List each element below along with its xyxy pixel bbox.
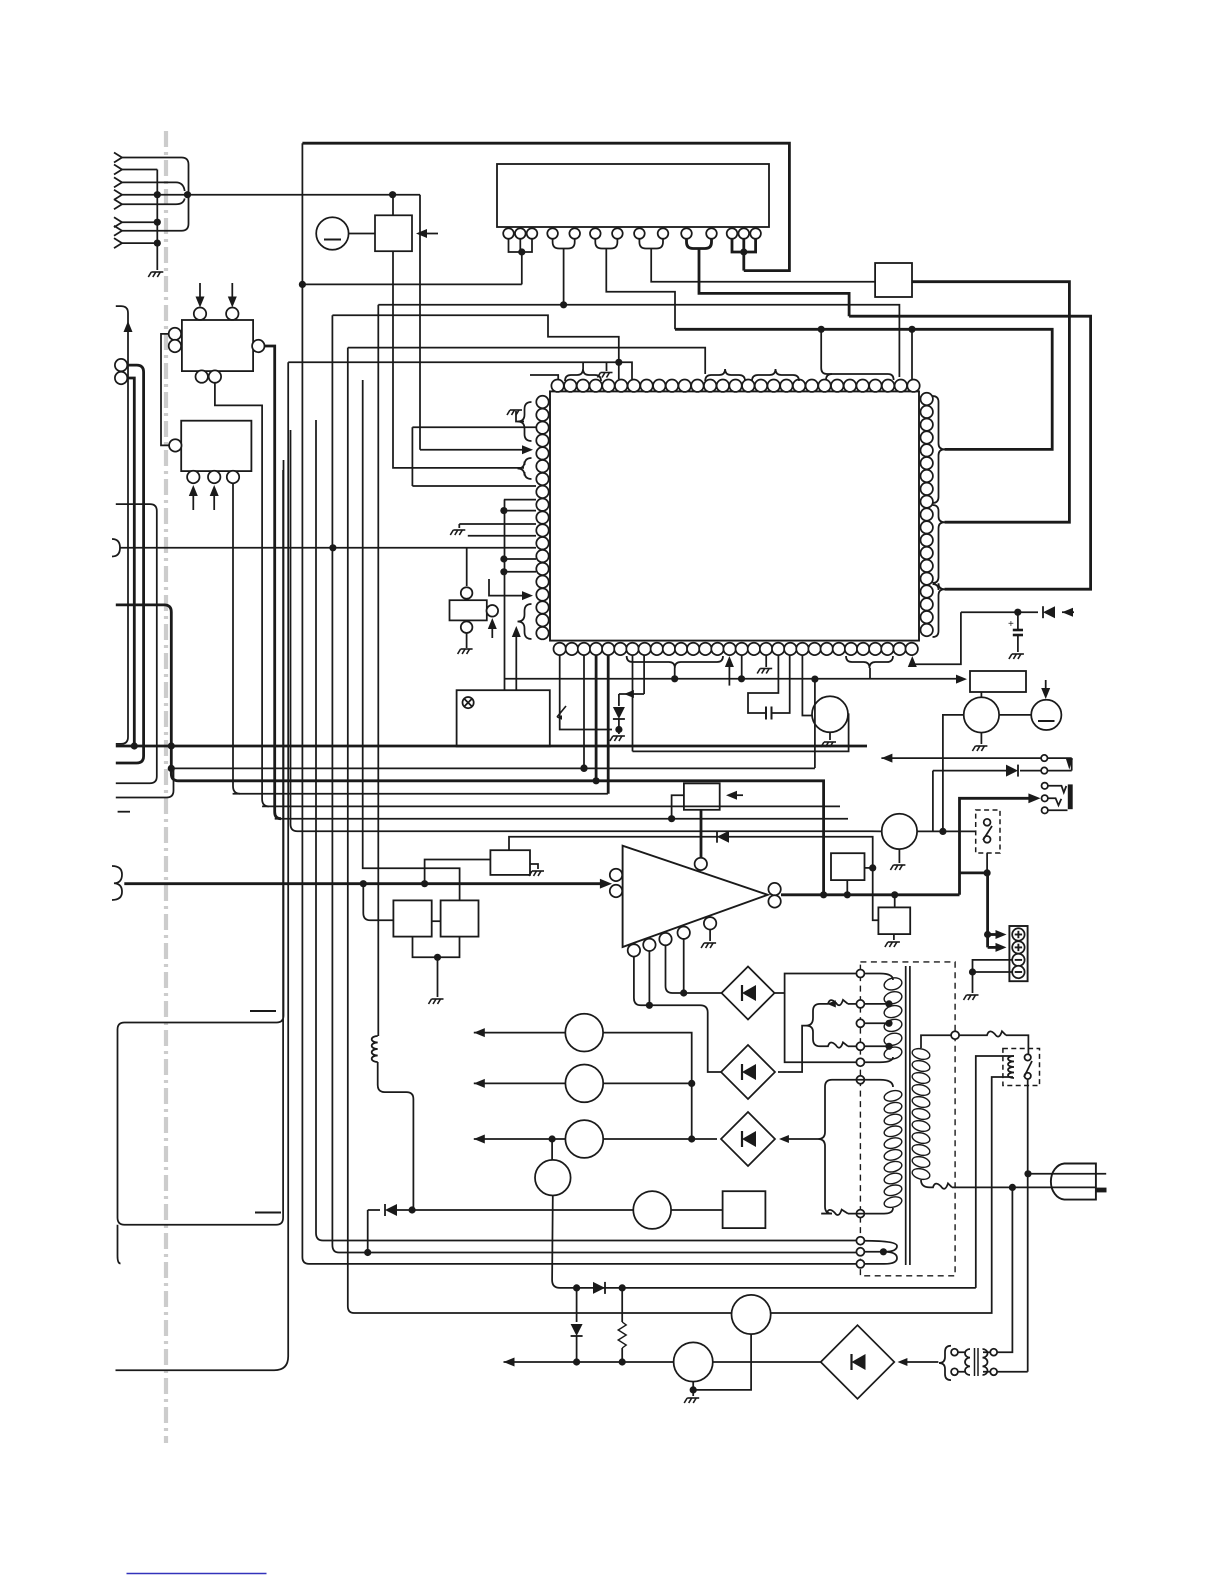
transistor Q9 — [535, 1160, 571, 1196]
wire relay feed fuse — [959, 1034, 984, 1036]
box VR1 — [375, 215, 412, 251]
diode D9 — [593, 1282, 605, 1294]
relay K1 — [1003, 1049, 1040, 1086]
resistor R1 — [621, 1288, 623, 1322]
wire power rail left — [302, 143, 860, 1264]
wire CN1 pin1-pin7 loop — [122, 158, 189, 231]
lamp box U4 — [457, 690, 550, 746]
wire diode D7 branch — [368, 1209, 380, 1211]
node CN1 junctions — [154, 191, 161, 198]
wire CN1 main feed — [188, 194, 421, 196]
connector CN3 — [112, 866, 122, 900]
diode D6 on L6 — [717, 831, 729, 843]
wire far-left feed 504 — [116, 504, 157, 783]
ground CN1 — [148, 272, 163, 277]
wire op-amp out thick — [781, 893, 960, 896]
wire rail C — [116, 362, 289, 1370]
wire Q11 Q10 grounds — [693, 1334, 751, 1390]
battery B1 — [316, 217, 348, 249]
wire U1b bottom arrows — [192, 492, 194, 510]
wire loop far-left 1 — [116, 306, 128, 744]
wire Q7 left arrow — [474, 1079, 485, 1088]
wire Rfb bottom stub — [846, 880, 848, 895]
IC U3 left pins — [536, 396, 548, 408]
wire far-left feed 605 thick — [116, 605, 824, 895]
transformer T1 primary winding W1 — [883, 976, 903, 992]
transistor Q4 — [633, 1191, 671, 1229]
bridge rectifier BD4 — [821, 1325, 895, 1399]
wire U2 pair1 — [553, 239, 575, 249]
wire CN1 ground spine — [156, 170, 158, 271]
wire hook stub — [118, 1225, 121, 1264]
wire X1 trim arrow — [491, 624, 493, 638]
wire far-left feed 797 — [116, 768, 174, 797]
wire jack thick — [960, 798, 1030, 895]
wire top pin feed B — [378, 305, 899, 377]
wire U2 pair3 — [639, 239, 663, 249]
wire input bus thick — [124, 882, 601, 885]
battery terminal block BT1 — [1009, 926, 1027, 981]
IC U2 pins — [503, 228, 514, 239]
diode D8 — [1006, 765, 1018, 777]
ground Q2 — [980, 733, 982, 744]
transistor Q11 — [732, 1295, 771, 1334]
wire bottom pin stub dot1 — [741, 655, 743, 679]
wire U3 left stub 524 with ground — [459, 523, 536, 525]
wire U3 top pins gnd group — [288, 362, 632, 379]
wire U3 right brace 1 — [933, 396, 945, 503]
wire U3 left stub 427 — [412, 426, 536, 428]
wire W2 brace to bridge3 — [818, 1080, 832, 1214]
wire Q4 line — [412, 1209, 633, 1211]
wire Q6 left arrow — [474, 1028, 485, 1037]
wire rail E — [332, 315, 860, 1252]
bridge rectifier BD2 — [721, 1045, 775, 1099]
wire outer loop — [302, 283, 521, 285]
wire opamp pins to BD1 — [634, 957, 722, 1072]
wire CN1 pin4 — [122, 194, 188, 196]
wire U1a top feeds — [199, 283, 201, 301]
transistor Q7 — [565, 1065, 603, 1103]
wire Q2 right to B3 — [999, 714, 1031, 716]
ground Rtop — [530, 864, 538, 869]
wire U8 left drop — [672, 795, 684, 819]
wire U2 right triple union — [732, 239, 756, 252]
wire loop far-left 3 — [127, 378, 134, 746]
wire D5 arrow — [1062, 608, 1073, 617]
IC U3 main — [550, 391, 919, 640]
wire Rg top stub — [894, 895, 896, 908]
wire Q5 right loop — [633, 714, 849, 751]
box U9 — [723, 1191, 766, 1228]
wire bus329 to IC right pins group1 — [675, 329, 1052, 449]
wire bottom pin stub 631 — [632, 655, 634, 751]
ground U3 left top — [507, 410, 522, 415]
wire bottom pin stub 607 thick — [607, 655, 610, 794]
wire lamp arrow into brace C — [515, 632, 517, 690]
wire SW1 to battery feed thick — [960, 873, 988, 948]
wire brace1 to bridge2 — [778, 1026, 806, 1072]
IC U1b — [181, 421, 251, 471]
wire SW1 bottom stub — [986, 853, 988, 873]
wire U3 top brace group3 — [752, 369, 799, 381]
ground Q5 — [829, 732, 831, 740]
transformer T1 winding W2 — [883, 1089, 903, 1103]
crystal X1 — [450, 600, 487, 620]
wire CN1 pin6 — [122, 221, 157, 223]
switch SW1 — [976, 810, 1000, 853]
wire cap-diode line — [961, 611, 1038, 613]
wire rail F — [348, 348, 1013, 1313]
IC U2 top connector block — [497, 164, 769, 227]
wire W1 taps brace + fuses — [824, 1000, 848, 1005]
transformer T1 winding W3 — [864, 1241, 897, 1264]
wire CN1 pin3 — [122, 182, 185, 191]
wire to bottom-right pin arrow — [912, 612, 961, 664]
wire relay contact down — [1027, 1079, 1029, 1372]
wire Rb merge + ground — [413, 937, 460, 958]
wire bottom pin stub 583 — [583, 655, 585, 768]
wire VR1 to IC pin brace — [393, 251, 524, 468]
wire pair4 loop to IC right pins group3 — [849, 316, 1091, 589]
ground U3 bottom pin — [765, 655, 767, 667]
wire zener feed arrow — [619, 693, 644, 695]
wire U3 left pin arrow1 — [420, 449, 522, 451]
wire BD3 arrow — [779, 1135, 789, 1143]
wire U2 pair2 — [595, 239, 617, 249]
wire U3 left brace A — [518, 402, 532, 441]
wire plug upper — [1028, 1173, 1106, 1175]
battery B3 — [1031, 700, 1061, 730]
AC plug P1 — [1051, 1164, 1096, 1200]
AC plug prong thick — [1096, 1188, 1107, 1193]
wire U3 left stub 486 — [412, 485, 536, 487]
wire U8 arrow — [731, 794, 743, 796]
transformer T1 secondary W4 — [911, 1047, 931, 1061]
wire Rfb right stub — [865, 867, 873, 869]
wire Q8 left arrow — [474, 1135, 485, 1144]
wire Q9 chain — [552, 1139, 976, 1288]
box Rfb — [831, 853, 865, 880]
wire diode line 770 — [932, 771, 934, 832]
box Rb1 — [393, 900, 431, 936]
wire Q2 left — [943, 715, 964, 832]
wire outer loop top — [302, 143, 789, 270]
wire rail B thick — [264, 346, 281, 819]
wire U3 pin1 stub — [530, 375, 558, 379]
transistor Q2 — [964, 697, 999, 732]
wire L1 bus — [171, 767, 815, 769]
wire L3 bus — [233, 793, 608, 795]
wire loop far-left 2 — [116, 365, 144, 763]
wire Q6 right — [603, 1033, 692, 1139]
wire U3 bottom brace group1 — [627, 656, 723, 668]
wire rail IC2pin3 — [233, 483, 240, 794]
capacitor C1 electrolytic — [1017, 612, 1019, 629]
ground Q3 — [898, 849, 900, 863]
transistor Q5 — [812, 696, 848, 732]
wire loop H1 — [118, 460, 284, 1225]
wire BT1 minus — [973, 960, 1013, 993]
transformer T1 core — [905, 966, 907, 1265]
label dash 1 — [250, 1010, 276, 1012]
wire U3 bottom brace group2 — [846, 656, 893, 668]
wire bus679 drop — [814, 679, 816, 768]
wire bottom pin arrow up — [728, 663, 730, 686]
wire Q8 right — [603, 1138, 717, 1140]
connector CN2 — [112, 539, 120, 557]
board boundary dash-dot line — [164, 131, 168, 1443]
wire Q3 right to switch — [917, 830, 976, 832]
wire rail D — [316, 420, 860, 1241]
box U6 — [970, 671, 1026, 692]
wire VR1 top feed — [392, 195, 394, 216]
wire L5 bus — [275, 818, 848, 820]
transistor Q3 — [882, 814, 917, 849]
wire L6 bus — [509, 837, 878, 921]
wire line arrow 758 — [881, 754, 892, 763]
connector CN1 pin arrows — [114, 153, 122, 163]
box U5 — [875, 263, 912, 297]
connector pins far-left — [115, 359, 127, 371]
wire U3 left arrow 595 — [489, 579, 522, 596]
isolation transformer T2 — [939, 1346, 951, 1380]
wire CN1 pin5 — [122, 198, 185, 204]
wire BD4 arrow — [898, 1358, 908, 1366]
diode D5 — [1043, 606, 1055, 618]
wire U5 right loop to IC right pins group2 — [912, 282, 1069, 523]
wire L4 bus — [262, 805, 840, 807]
wire Rb link — [432, 920, 441, 922]
wire rail H inductor — [377, 305, 379, 1036]
wire crystal feed — [466, 548, 468, 586]
wire thick mid bus — [116, 745, 867, 748]
wire lamp bus — [505, 678, 958, 680]
wire bottom pin stub 595 thick — [595, 655, 598, 781]
wire VR1 control arrow — [419, 233, 438, 235]
wire IC1-IC2 left link — [161, 334, 170, 446]
wire rail A — [215, 382, 269, 806]
transistor Q10 — [674, 1342, 713, 1381]
svg-text:+: + — [1008, 619, 1014, 630]
transistor Q8 — [565, 1120, 603, 1158]
IC U3 right pins — [921, 393, 933, 405]
wire U3 top brace group2 — [705, 369, 745, 381]
wire U3 left stub 535 — [468, 535, 536, 537]
IC U3 top pins — [551, 380, 563, 392]
box Rtop — [490, 850, 530, 875]
wire U3 right brace 3 — [933, 583, 945, 637]
wire U3 left stubs x503 — [504, 499, 536, 501]
wire bus left-connector — [120, 547, 536, 549]
wire B3 top arrow — [1045, 680, 1047, 692]
wire CN1 pin8 — [122, 242, 157, 244]
ground Rg — [893, 934, 895, 940]
ground X1 — [466, 633, 468, 648]
wire U2 pair4 — [687, 239, 712, 249]
wire top pin bracket wide — [820, 329, 822, 368]
ground op-amp pin — [709, 930, 711, 942]
wire rail G — [363, 380, 460, 900]
wire top pin feed A — [911, 329, 913, 380]
IC U3 bottom pins — [554, 643, 566, 655]
wire U3 left brace B — [518, 458, 532, 479]
tick mark bottom far-left — [118, 811, 130, 813]
bridge rectifier BD3 — [721, 1112, 775, 1166]
wire U3 right brace 2 — [933, 505, 945, 583]
wire U8 to op-amp pin thick — [700, 810, 703, 858]
wire BT1 plus arrows thick — [988, 933, 997, 936]
wire Rtop feed — [425, 860, 491, 884]
inductor L1 — [372, 1036, 378, 1062]
wire B1 to VR1 — [349, 233, 375, 235]
capacitor C2 between pins — [748, 655, 778, 713]
transformer T1 terminals — [856, 970, 864, 978]
wire relay coil left wires — [976, 1056, 1014, 1288]
wire U3 left brace C — [518, 604, 532, 639]
wire to box B_b — [363, 884, 393, 921]
box U8 over op-amp — [684, 783, 720, 809]
transistor Q6 — [565, 1014, 603, 1052]
wire L1 to diode — [378, 1062, 414, 1210]
bridge rectifier BD1 — [722, 967, 775, 1020]
headphone jack J1 — [1042, 783, 1048, 789]
op-amp U7 — [623, 846, 768, 947]
wire bottom pin stub 558 thermal — [560, 655, 612, 730]
wire Q5 base stub — [802, 655, 812, 716]
zener D10 — [576, 1288, 578, 1322]
wire T2 right wires — [997, 1187, 1012, 1352]
wire CN1 pin2 — [122, 169, 157, 171]
op-amp bottom pins — [628, 944, 640, 956]
wire Q7 right — [603, 1082, 692, 1084]
box Rg — [878, 907, 910, 934]
wire bridge1 to W1 top — [775, 974, 857, 994]
wire bus 315 — [332, 315, 618, 362]
label dash 2 — [255, 1212, 281, 1214]
wire W1 bottom return — [785, 993, 857, 1062]
zener D3 — [618, 694, 620, 706]
box Rb2 — [441, 900, 479, 936]
blue underline — [127, 1573, 267, 1575]
wire L5b bus to Q3 — [291, 430, 882, 831]
transformer T1 dashed box — [860, 962, 955, 1276]
IC U1a — [182, 320, 253, 371]
wire bottom main line — [504, 1358, 515, 1367]
wire U3 top brace group1 — [565, 369, 601, 381]
jack tip switch — [1066, 759, 1073, 770]
wire U2 left triple union — [509, 239, 533, 252]
